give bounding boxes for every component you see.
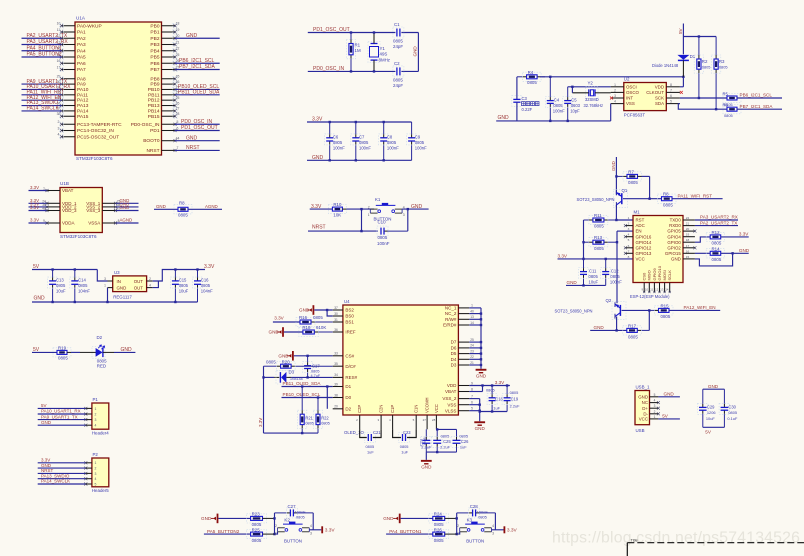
U1A pin 31 PA10 [62,88,76,90]
resistor R17 [637,329,641,331]
wire 5V bottom of cap loop [703,426,725,428]
svg-text:Header4: Header4 [92,430,109,435]
svg-text:0805: 0805 [724,113,733,118]
svg-text:0.1uF: 0.1uF [727,416,738,421]
wire GND rail for decoupling caps [307,159,412,161]
wire 5V to R19 [32,351,57,353]
svg-text:https://blog.csdn.net/ps574134: https://blog.csdn.net/ps574134526 [552,530,800,547]
wire junction vertical K2 [274,513,276,534]
U4 pin 22 D4 [458,358,469,360]
capacitor C1 [393,27,404,38]
svg-text:C15: C15 [179,278,187,283]
svg-text:1: 1 [104,283,106,287]
svg-text:VSS_2: VSS_2 [442,396,457,401]
svg-text:4: 4 [94,424,96,428]
svg-text:D7: D7 [451,340,457,345]
U2 pin 1 OSCI [611,86,624,88]
svg-text:0805: 0805 [594,224,604,229]
wire net PB6_I2C1_SCL [737,97,782,99]
svg-text:AGND: AGND [205,204,218,209]
capacitor C15 [174,270,176,278]
svg-text:13: 13 [470,315,474,319]
svg-text:0805: 0805 [459,433,468,438]
wire net PB7_I2C1_SDA right of U1A [175,69,220,71]
wire net PA3_USART2_RX [695,219,738,221]
wire R4 net to D1 junction [540,76,683,78]
transistor Q1 [613,190,627,208]
U1A pin 30 PA9 [62,83,76,85]
svg-text:4: 4 [628,233,630,237]
svg-text:BS1: BS1 [345,320,354,325]
svg-text:2.2uF: 2.2uF [510,404,521,409]
U1B pin 9 VDDA with 3.3V net [47,222,60,224]
svg-text:20: 20 [334,405,338,409]
wire SDA branch to D2 pin [326,387,328,409]
svg-text:GND: GND [156,204,166,209]
wire USB GND net [658,396,680,398]
U4 pin 21 D3 [458,364,469,366]
svg-text:21: 21 [470,361,474,365]
svg-text:PB10_OLED_SCL: PB10_OLED_SCL [283,392,321,397]
svg-text:10uF: 10uF [56,289,66,294]
svg-text:R10: R10 [333,202,342,207]
svg-text:0805: 0805 [712,257,722,262]
U1A pin 38 PA15 [62,115,76,117]
svg-text:U1A: U1A [76,16,86,21]
resistor R20 [264,365,277,367]
wire VDD row 3.3V [469,385,510,387]
U4 pin 5 C1N [415,415,417,429]
svg-text:23: 23 [470,349,474,353]
wire Q2 base to R15 [622,309,650,311]
svg-text:R6: R6 [723,103,729,108]
svg-text:GND: GND [411,204,423,210]
wire cap bottom rail to ground [426,451,456,453]
U1A pin 16 PA6 [62,62,76,64]
P1 pin 2 net PA10_USART1_RX [86,413,92,415]
svg-text:3: 3 [94,472,96,476]
svg-text:PA9: PA9 [77,82,86,88]
svg-text:3.3V: 3.3V [739,232,749,237]
sheet border title block [627,542,804,544]
svg-text:3: 3 [94,418,96,422]
wire R11 R13 left vertical to 3.3V rail [583,220,585,259]
U1A pin 2 PC13-TAMPER-RTC [62,123,76,125]
P2 pin 4 net PA13_SWDIO [86,478,92,480]
capacitor C12 [605,259,607,268]
svg-text:U3: U3 [114,270,120,275]
wire K1 to GND [402,208,429,210]
svg-text:C5: C5 [571,97,577,102]
svg-text:PA10_USART1_RX: PA10_USART1_RX [41,409,81,414]
power 3.3V for K3 [504,526,506,533]
svg-text:0805: 0805 [663,202,673,207]
U4 pin 4 C1P [392,415,394,429]
svg-text:C10: C10 [378,220,387,225]
svg-text:SOT23_S8050_NPN: SOT23_S8050_NPN [577,197,615,202]
svg-text:0603: 0603 [571,103,581,108]
svg-text:R25: R25 [252,527,261,532]
svg-text:GND: GND [383,516,394,521]
svg-text:5V: 5V [33,264,40,270]
svg-text:GND: GND [117,286,127,291]
svg-text:1M: 1M [355,48,361,53]
U1A pin PB4 [162,50,176,52]
svg-text:35: 35 [334,362,338,366]
svg-text:3.3V: 3.3V [41,458,50,463]
svg-text:C13: C13 [56,278,64,283]
svg-text:PA2_USART2_TX: PA2_USART2_TX [27,33,68,39]
resistor R19 [53,348,71,357]
wire net NRST right of U1A [175,149,220,151]
svg-text:7: 7 [628,249,630,253]
P2 pin 2 net GND [86,467,92,469]
ground symbol below VSS [474,421,485,423]
svg-text:R16: R16 [299,315,308,320]
svg-text:0805: 0805 [478,515,487,520]
resistor R16 [311,321,315,323]
svg-text:GND: GND [475,426,486,431]
wire R7 to Q1 base node [638,175,642,177]
svg-text:PA6: PA6 [77,61,86,67]
svg-text:1uF: 1uF [367,450,374,455]
svg-text:SCLK: SCLK [667,270,672,281]
U1B pin 1 VBAT with 3.3V net [47,190,60,192]
svg-text:32.768kHz: 32.768kHz [584,103,604,108]
wire K3 to 3.3V [492,529,504,531]
U1A pin 33 PA12 [62,99,76,101]
svg-text:0805: 0805 [97,358,107,363]
svg-text:RES#: RES# [345,375,357,380]
svg-text:PA2_USART2_TX: PA2_USART2_TX [700,220,737,225]
U4 pin 8 VBAT [458,391,469,393]
svg-text:PC15-OSC32_OUT: PC15-OSC32_OUT [77,134,119,140]
svg-text:R19: R19 [58,345,67,350]
svg-text:GPIO13: GPIO13 [636,251,652,256]
svg-text:40: 40 [470,309,474,313]
svg-text:PB6_I2C1_SCL: PB6_I2C1_SCL [179,58,215,64]
svg-text:5: 5 [670,100,672,104]
U1A pin PB10 [162,88,176,90]
resistor R7 [616,175,623,177]
svg-text:C2N: C2N [379,405,384,413]
svg-text:GND: GND [41,463,52,468]
pushbutton K1 [370,208,377,210]
svg-text:PB7_I2C1_SDA: PB7_I2C1_SDA [740,104,774,109]
svg-text:U1B: U1B [60,181,69,186]
svg-text:1: 1 [457,532,459,536]
svg-text:3: 3 [492,532,494,536]
svg-text:6: 6 [471,401,473,405]
svg-text:0805: 0805 [712,241,722,246]
svg-text:D5: D5 [451,351,457,356]
svg-text:3.3V: 3.3V [258,418,263,427]
svg-text:5V: 5V [41,403,47,408]
wire GND rail RTC [496,120,611,122]
capacitor C9 [411,122,413,134]
svg-text:100nF: 100nF [610,279,622,284]
resistor R18 910K [284,331,303,333]
svg-text:3.3V: 3.3V [558,254,568,259]
no-connect marker on U2 CLKOUT pin [680,91,683,94]
wire RST row to M1 [616,219,633,221]
svg-text:0805: 0805 [661,314,671,319]
P1 pin 3 net PA9_USART1_TX [86,419,92,421]
op-amp U1B STM32 power pins [60,188,102,233]
U2 pin 7 CLKOUT [666,91,680,93]
wire net PA4_BUTTON1 [386,533,433,535]
svg-text:10pF: 10pF [570,108,580,113]
no-connect marker on U2 INT pin [610,97,613,100]
svg-text:D1: D1 [345,384,351,389]
svg-text:R4: R4 [528,70,534,75]
wifi module M1 ESP-12 [633,216,683,283]
wire net PA2_USART2_TX [695,225,738,227]
svg-text:SCK: SCK [655,96,664,101]
capacitor C24 on VCOMH [425,429,427,437]
svg-text:7: 7 [177,146,179,150]
U1A pin PB7 [162,69,176,71]
wire GPIO15 to R14 [695,252,710,254]
svg-text:NC_1: NC_1 [445,306,457,311]
svg-text:R23: R23 [252,512,261,517]
svg-text:GND: GND [739,248,750,253]
capacitor C18 [491,386,493,395]
wire GPIO0 to R12 [695,237,710,242]
svg-text:C21: C21 [373,430,381,435]
svg-text:VDD: VDD [655,84,664,89]
svg-text:34: 34 [334,373,338,377]
svg-text:12: 12 [655,288,659,292]
capacitor C13 [52,270,54,278]
svg-text:0805: 0805 [296,515,305,520]
U4 pin 30 BS0 [333,315,343,317]
U2 pin 5 SDA [666,103,680,105]
svg-text:16: 16 [686,249,690,253]
wire GND row Q2 [590,329,627,331]
svg-text:PB6: PB6 [150,61,159,67]
wire GND to R24 [401,517,433,519]
svg-text:2: 2 [654,410,656,414]
U1A pin 4 PC15-OSC32_OUT [62,136,76,138]
svg-text:44: 44 [176,137,180,141]
svg-text:PC13-TAMPER-RTC: PC13-TAMPER-RTC [77,122,122,128]
svg-text:ADC: ADC [636,223,645,228]
svg-text:5: 5 [654,393,656,397]
svg-text:BS0: BS0 [345,314,354,319]
wire net PD1_OSC_OUT right of U1A [175,130,220,132]
svg-text:PA5: PA5 [77,55,86,61]
ground symbol below VCOMH caps [425,452,427,460]
svg-text:Title: Title [631,538,639,543]
svg-text:2: 2 [614,88,616,92]
svg-text:9: 9 [471,381,473,385]
svg-text:CLKOUT: CLKOUT [646,90,664,95]
svg-text:0805: 0805 [400,444,409,449]
svg-text:0805: 0805 [594,246,604,251]
U4 pin 6 VSS [458,404,469,406]
svg-text:PA11_WIFI_RST: PA11_WIFI_RST [678,193,713,198]
svg-text:VDDA: VDDA [62,221,75,226]
svg-text:OSCO: OSCO [626,90,640,95]
U2 pin 3 INT [611,97,624,99]
crystal Y1 [368,42,380,63]
svg-text:VDD_3: VDD_3 [62,208,77,213]
svg-text:33: 33 [334,352,338,356]
svg-text:R11: R11 [594,213,602,218]
svg-text:14: 14 [470,321,474,325]
svg-text:30: 30 [334,312,338,316]
wire cap bottoms to VSS vertical [480,411,507,413]
svg-text:32SMD: 32SMD [585,97,599,102]
svg-text:PB11: PB11 [148,92,160,98]
wire NRST vertical to R10 K1 junction [361,209,363,231]
svg-text:PB4: PB4 [150,48,159,54]
wire net PD0_OSC_IN bottom [308,70,396,72]
wire GND to R23 [218,517,250,519]
svg-text:GPIO2: GPIO2 [667,245,681,250]
svg-text:1: 1 [368,213,370,217]
svg-text:100nF: 100nF [553,108,565,113]
svg-text:28: 28 [432,418,436,422]
svg-text:5V: 5V [705,429,712,434]
svg-text:4: 4 [654,399,656,403]
M1 pin 15 GND [683,258,695,260]
svg-text:PA15: PA15 [77,114,89,120]
svg-text:Header5: Header5 [92,488,109,493]
svg-text:5V: 5V [33,347,40,353]
U3 pin 1 GND stub and wire to rail [108,287,113,289]
svg-text:3: 3 [403,213,405,217]
svg-text:8: 8 [471,387,473,391]
svg-text:R15: R15 [661,304,670,309]
wire VDD to D1 net [680,86,684,88]
M1 pin 21 RXD0 [683,225,695,227]
resistor R25 [247,530,267,539]
svg-text:PB7: PB7 [150,67,159,73]
svg-text:1: 1 [275,532,277,536]
svg-text:3.3V: 3.3V [325,527,336,533]
svg-text:OSCI: OSCI [626,84,637,89]
svg-text:PB8: PB8 [150,76,159,82]
svg-text:0805: 0805 [321,421,330,426]
svg-text:GND: GND [121,347,133,353]
resistor R10 [328,205,346,214]
svg-text:0805: 0805 [179,283,189,288]
svg-text:PA14_SWCLK: PA14_SWCLK [41,479,70,484]
svg-text:31: 31 [334,318,338,322]
wire 3.3V left vertical for OLED [263,366,265,433]
resistor R2 [698,37,700,56]
svg-text:6: 6 [670,94,672,98]
P2 pin 3 net NRST [86,472,92,474]
svg-text:R8: R8 [663,192,669,197]
svg-text:PD1_OSC_OUT: PD1_OSC_OUT [181,125,218,131]
svg-text:GPIO5: GPIO5 [667,229,681,234]
svg-text:10uF: 10uF [589,279,599,284]
svg-text:0805: 0805 [702,65,711,70]
svg-text:19: 19 [686,233,690,237]
wire R23 to junction [263,517,275,519]
ground symbol for unused U4 pins [476,369,487,371]
svg-text:5: 5 [471,407,473,411]
svg-text:OUT: OUT [134,286,144,291]
U2 pin 8 VDD [666,86,680,88]
svg-text:17: 17 [686,244,690,248]
wire U2 VSS down to GND rail [610,104,612,121]
U1A pin PB2 [162,37,176,39]
svg-text:R8: R8 [179,201,185,206]
U1B pin 23 VSS_1 with GND net [102,202,115,204]
svg-text:2: 2 [94,467,96,471]
U4 pin 23 D5 [458,353,469,355]
svg-text:2: 2 [457,524,459,528]
svg-text:7: 7 [670,88,672,92]
wire 3.3V to R16 [273,321,300,323]
svg-text:OLED_1O: OLED_1O [344,430,364,435]
svg-text:PD0-OSC_IN: PD0-OSC_IN [131,122,160,128]
svg-text:VCOMH: VCOMH [425,397,430,413]
svg-text:R26: R26 [434,527,443,532]
U2 pin 2 OSCO [611,91,624,93]
svg-text:0805: 0805 [610,274,620,279]
svg-text:8: 8 [670,83,672,87]
svg-text:3: 3 [614,94,616,98]
U1A pin PB8 [162,78,176,80]
svg-text:100nF: 100nF [415,145,427,150]
svg-text:PD1: PD1 [150,128,160,134]
M1 bottom pins CS0 MISO GPIO9 GPIO10 MOSI SCLK [643,283,645,293]
wire into U3 IN [97,270,107,282]
svg-text:PA4_BUTTON1: PA4_BUTTON1 [389,529,422,534]
wire junction vertical K3 [456,513,458,534]
svg-text:10uF: 10uF [706,416,715,421]
wire K2 to 3.3V [309,529,321,531]
M1 pin 7 GPIO13 [625,252,633,254]
pushbutton K3 [460,527,467,529]
resistor R13 [584,241,589,243]
U1A pin 37 PA14 [62,110,76,112]
svg-text:BUTTON: BUTTON [466,539,484,544]
wire EN vertical down to Q2 [616,231,618,303]
svg-text:PB6_I2C1_SCL: PB6_I2C1_SCL [740,93,773,98]
wire net PA12_WIFI_EN [22,99,62,101]
svg-text:3.3V: 3.3V [507,527,518,533]
svg-text:4: 4 [492,524,494,528]
U4 pin 34 RES# [333,376,343,378]
svg-text:Y2: Y2 [588,80,594,85]
svg-text:5: 5 [177,120,179,124]
pushbutton K2 [278,527,285,529]
svg-text:PCF8563T: PCF8563T [624,113,646,118]
wire BS2 BS0 to GND [314,309,332,311]
svg-text:D4: D4 [451,357,457,362]
U1A pin 32 PA11 [62,94,76,96]
svg-text:R14: R14 [712,246,721,251]
svg-text:36: 36 [334,328,338,332]
svg-text:C2: C2 [394,61,400,66]
U1A pin PB0 [162,25,176,27]
svg-text:0805: 0805 [387,140,397,145]
svg-text:C16: C16 [201,278,209,283]
wire net PA4_BUTTON1 [22,50,62,52]
capacitor C11 [583,259,585,268]
svg-text:37: 37 [334,306,338,310]
svg-text:GPIO4: GPIO4 [667,234,681,239]
resistor R12 [706,232,725,241]
svg-text:SOT23_S8050_NPN: SOT23_S8050_NPN [555,308,593,313]
svg-text:VCC: VCC [636,257,645,262]
